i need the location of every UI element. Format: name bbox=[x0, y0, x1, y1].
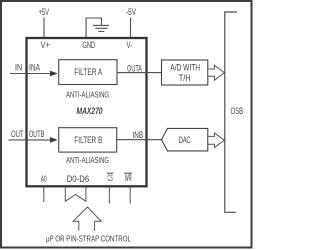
svg-text:INA: INA bbox=[29, 63, 40, 73]
svg-text:WR: WR bbox=[125, 173, 132, 183]
svg-text:+5V: +5V bbox=[39, 7, 50, 17]
svg-text:ANTI-ALIASING: ANTI-ALIASING bbox=[66, 155, 109, 165]
svg-text:V-: V- bbox=[127, 40, 133, 50]
svg-text:ANTI-ALIASING: ANTI-ALIASING bbox=[66, 89, 109, 99]
svg-text:A0: A0 bbox=[41, 174, 47, 184]
svg-text:DAC: DAC bbox=[179, 135, 191, 145]
svg-text:MAX270: MAX270 bbox=[77, 106, 103, 117]
svg-text:-5V: -5V bbox=[126, 7, 136, 17]
svg-text:OUTA: OUTA bbox=[127, 63, 142, 73]
svg-text:INB: INB bbox=[133, 130, 144, 140]
svg-text:A/D WITH: A/D WITH bbox=[170, 62, 200, 72]
svg-text:OUTB: OUTB bbox=[29, 129, 44, 139]
svg-text:OUT: OUT bbox=[11, 129, 24, 139]
svg-text:V+: V+ bbox=[41, 40, 51, 50]
svg-text:CS: CS bbox=[108, 173, 113, 183]
svg-text:IN: IN bbox=[15, 63, 22, 73]
svg-text:DSB: DSB bbox=[231, 106, 243, 116]
svg-text:FILTER B: FILTER B bbox=[74, 135, 102, 145]
svg-text:µP OR PIN-STRAP CONTROL: µP OR PIN-STRAP CONTROL bbox=[46, 233, 131, 243]
svg-text:FILTER A: FILTER A bbox=[74, 67, 102, 77]
svg-text:T/H: T/H bbox=[179, 73, 191, 83]
svg-text:GND: GND bbox=[83, 40, 96, 50]
svg-text:D0-D6: D0-D6 bbox=[67, 174, 90, 184]
